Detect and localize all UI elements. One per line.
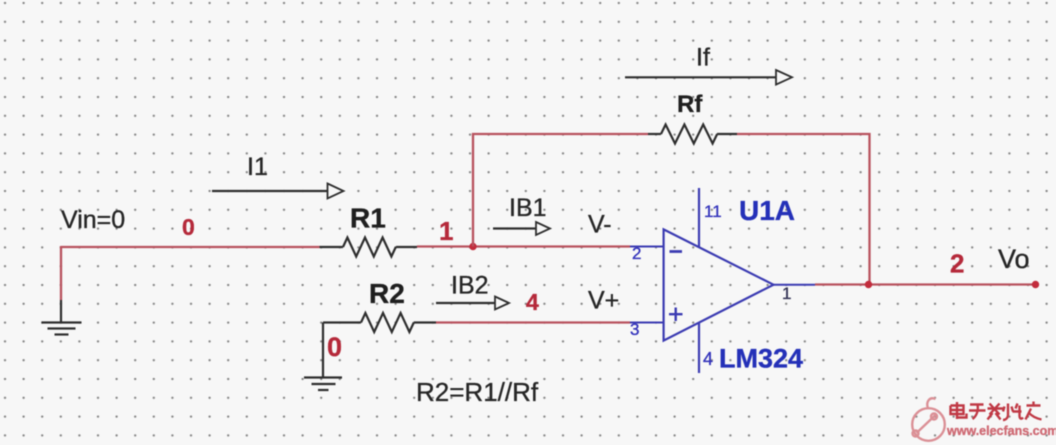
op-amp U1A input stubs	[630, 247, 664, 323]
svg-text:0: 0	[327, 332, 342, 362]
wire: input net 0 horizontal from source corner to R1	[61, 246, 320, 248]
svg-text:1: 1	[439, 216, 453, 246]
svg-text:I1: I1	[247, 153, 268, 181]
svg-text:LM324: LM324	[719, 344, 803, 374]
svg-text:2: 2	[632, 244, 641, 263]
svg-text:IB2: IB2	[451, 272, 489, 300]
current arrow I1	[212, 184, 344, 199]
current arrow IB2	[436, 297, 509, 310]
svg-text:U1A: U1A	[739, 195, 795, 226]
resistor Rf	[648, 125, 737, 144]
svg-text:11: 11	[704, 202, 722, 221]
svg-text:Vo: Vo	[998, 244, 1030, 274]
svg-text:R2: R2	[369, 278, 405, 309]
junction output/feedback	[865, 281, 872, 288]
wire: feedback from Rf to output node	[737, 134, 870, 285]
svg-text:R1: R1	[350, 203, 386, 234]
current arrow If	[625, 70, 792, 85]
svg-text:V+: V+	[588, 287, 619, 315]
resistor R2	[323, 313, 436, 332]
svg-text:www.elecfans.com: www.elecfans.com	[946, 424, 1056, 438]
watermark text dianzifashaoyou	[951, 402, 1042, 421]
current arrow IB1	[493, 222, 550, 235]
pin 4 power stub	[698, 323, 700, 374]
junction node 1	[469, 243, 476, 250]
svg-text:Vin=0: Vin=0	[61, 206, 125, 234]
svg-text:V-: V-	[588, 211, 612, 239]
svg-text:Rf: Rf	[677, 91, 703, 118]
wire: vertical drop to ground at left	[60, 246, 62, 322]
svg-text:If: If	[696, 44, 710, 72]
svg-text:4: 4	[526, 289, 539, 315]
wire: net 1 from R1 to op-amp inverting input	[417, 245, 630, 247]
svg-text:R2=R1//Rf: R2=R1//Rf	[416, 377, 539, 407]
svg-text:IB1: IB1	[509, 194, 547, 222]
watermark logo circle	[912, 398, 945, 440]
op-amp U1A triangle	[664, 229, 774, 340]
wire: output net 2	[815, 283, 1036, 285]
ground (left, net 0)	[42, 323, 82, 335]
svg-text:4: 4	[703, 349, 713, 369]
svg-text:2: 2	[950, 249, 964, 279]
wire: net 4 from R2 to op-amp non-inverting input	[436, 321, 630, 323]
op-amp output stub pin 1	[774, 284, 816, 286]
svg-text:3: 3	[630, 320, 639, 339]
node endpoint Vo	[1032, 281, 1039, 288]
svg-text:1: 1	[782, 284, 791, 303]
svg-text:0: 0	[182, 214, 195, 240]
ground (under R2, net 0)	[304, 378, 342, 391]
wire: feedback riser from node 1 up to Rf	[473, 134, 648, 247]
resistor R1	[320, 238, 418, 257]
pin 11 power stub	[698, 188, 700, 247]
wire: R2 drop to ground	[322, 323, 324, 378]
